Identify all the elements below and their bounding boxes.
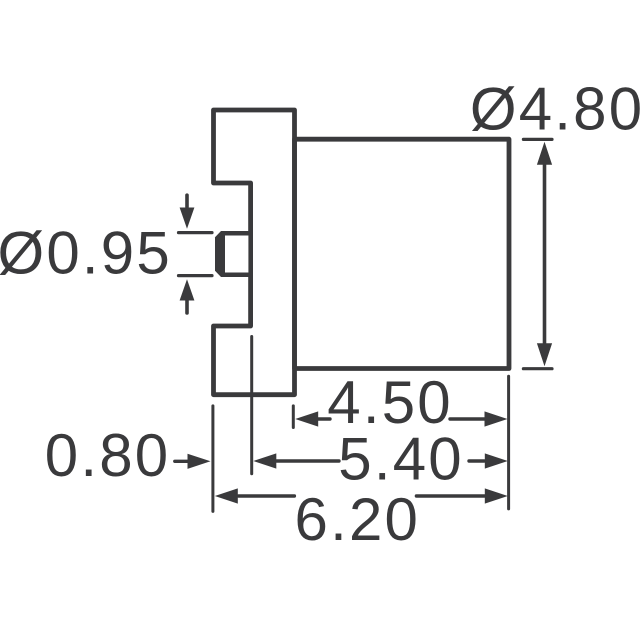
dim Ø4.80 ticks bbox=[523, 139, 552, 368]
svg-text:6.20: 6.20 bbox=[295, 486, 421, 553]
svg-text:Ø4.80: Ø4.80 bbox=[470, 76, 640, 143]
dim 0.80 leader bbox=[175, 460, 188, 463]
svg-text:Ø0.95: Ø0.95 bbox=[0, 220, 172, 287]
dim Ø0.95 arrows bbox=[185, 195, 189, 207]
svg-text:5.40: 5.40 bbox=[338, 425, 464, 492]
dim Ø4.80 vertical line bbox=[543, 162, 547, 346]
dim 5.40 row bbox=[277, 459, 339, 462]
dim 4.50 row bbox=[318, 417, 330, 420]
dim Ø0.95 ticks bbox=[179, 233, 213, 276]
pin Ø0.95 bbox=[215, 231, 253, 277]
dim 6.20 row bbox=[238, 494, 294, 497]
dim Ø4.80 arrows bbox=[537, 142, 552, 367]
svg-text:0.80: 0.80 bbox=[45, 422, 171, 489]
extension lines bottom bbox=[211, 406, 214, 512]
body rectangle bbox=[295, 139, 510, 368]
flange outline bbox=[214, 110, 295, 395]
